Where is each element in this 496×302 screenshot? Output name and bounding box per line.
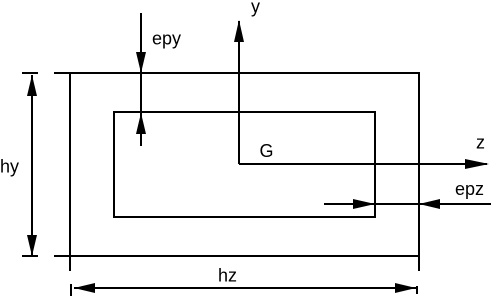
hz right witness tick — [416, 286, 418, 294]
hy bottom arrowhead (points down) — [27, 235, 37, 256]
hy top arrowhead (points up) — [27, 75, 37, 96]
epy lower arrowhead (points up to inner top edge) — [136, 113, 146, 134]
hy top witness tick — [22, 72, 38, 74]
hy dimension line — [31, 75, 33, 255]
hz label — [218, 266, 237, 286]
hy label — [0, 157, 19, 177]
svg-text:epy: epy — [152, 29, 181, 49]
svg-text:epz: epz — [455, 179, 484, 199]
epz left arrowhead (points right to inner right edge) — [353, 199, 375, 209]
svg-text:G: G — [260, 141, 274, 161]
y axis arrowhead — [234, 20, 244, 42]
y axis label — [251, 0, 260, 17]
outer section bottom edge — [54, 255, 420, 257]
epz right arrowhead (points left to outer right edge) — [419, 199, 440, 209]
svg-text:hy: hy — [0, 157, 19, 177]
svg-text:z: z — [476, 133, 485, 153]
epy upper arrowhead (points down to outer top edge) — [136, 52, 146, 73]
hy bottom witness tick — [22, 255, 38, 257]
epy dimension line — [140, 13, 142, 146]
epy label — [152, 29, 181, 49]
epz label — [455, 179, 484, 199]
hz right arrowhead (points right) — [395, 283, 416, 293]
centroid label G — [260, 141, 274, 161]
hz left witness tick — [70, 284, 72, 296]
y axis line — [238, 21, 240, 164]
z axis arrowhead — [465, 159, 489, 169]
z axis label — [476, 133, 485, 153]
svg-text:hz: hz — [218, 266, 237, 286]
epz dimension line — [324, 203, 491, 205]
z axis line — [239, 163, 487, 165]
outer section left edge (with hz witness stub) — [69, 72, 71, 271]
hz left arrowhead (points left) — [74, 283, 95, 293]
outer section right edge (with hz witness stub) — [418, 72, 420, 271]
svg-text:y: y — [251, 0, 260, 17]
inner hole rectangle — [114, 112, 375, 217]
outer section top edge — [54, 72, 419, 74]
hz dimension line — [74, 287, 416, 289]
